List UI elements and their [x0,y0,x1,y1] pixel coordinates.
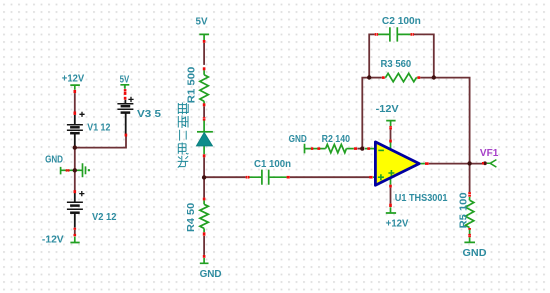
svg-text:GND: GND [45,155,63,166]
svg-text:R4 50: R4 50 [186,202,197,232]
svg-text:V2 12: V2 12 [92,212,117,223]
svg-text:-12V: -12V [42,235,64,246]
svg-text:C2 100n: C2 100n [382,16,421,27]
svg-text:V1 12: V1 12 [87,123,110,134]
svg-text:GND: GND [289,134,307,145]
svg-text:GND: GND [200,269,222,280]
svg-text:+12V: +12V [62,73,85,84]
svg-text:-12V: -12V [376,104,399,115]
svg-text:VF1: VF1 [480,148,499,159]
svg-text:5V: 5V [120,74,130,85]
svg-text:+12V: +12V [386,218,409,229]
svg-text:R2 140: R2 140 [322,134,351,145]
svg-text:V3 5: V3 5 [137,109,162,120]
svg-text:GND: GND [463,248,487,259]
svg-text:C1 100n: C1 100n [254,159,291,170]
svg-text:R5 100: R5 100 [458,192,469,228]
svg-text:R3 560: R3 560 [381,59,412,70]
svg-text:5V: 5V [196,16,208,27]
svg-text:U1 THS3001: U1 THS3001 [395,193,448,204]
svg-text:R1 500: R1 500 [187,66,198,103]
